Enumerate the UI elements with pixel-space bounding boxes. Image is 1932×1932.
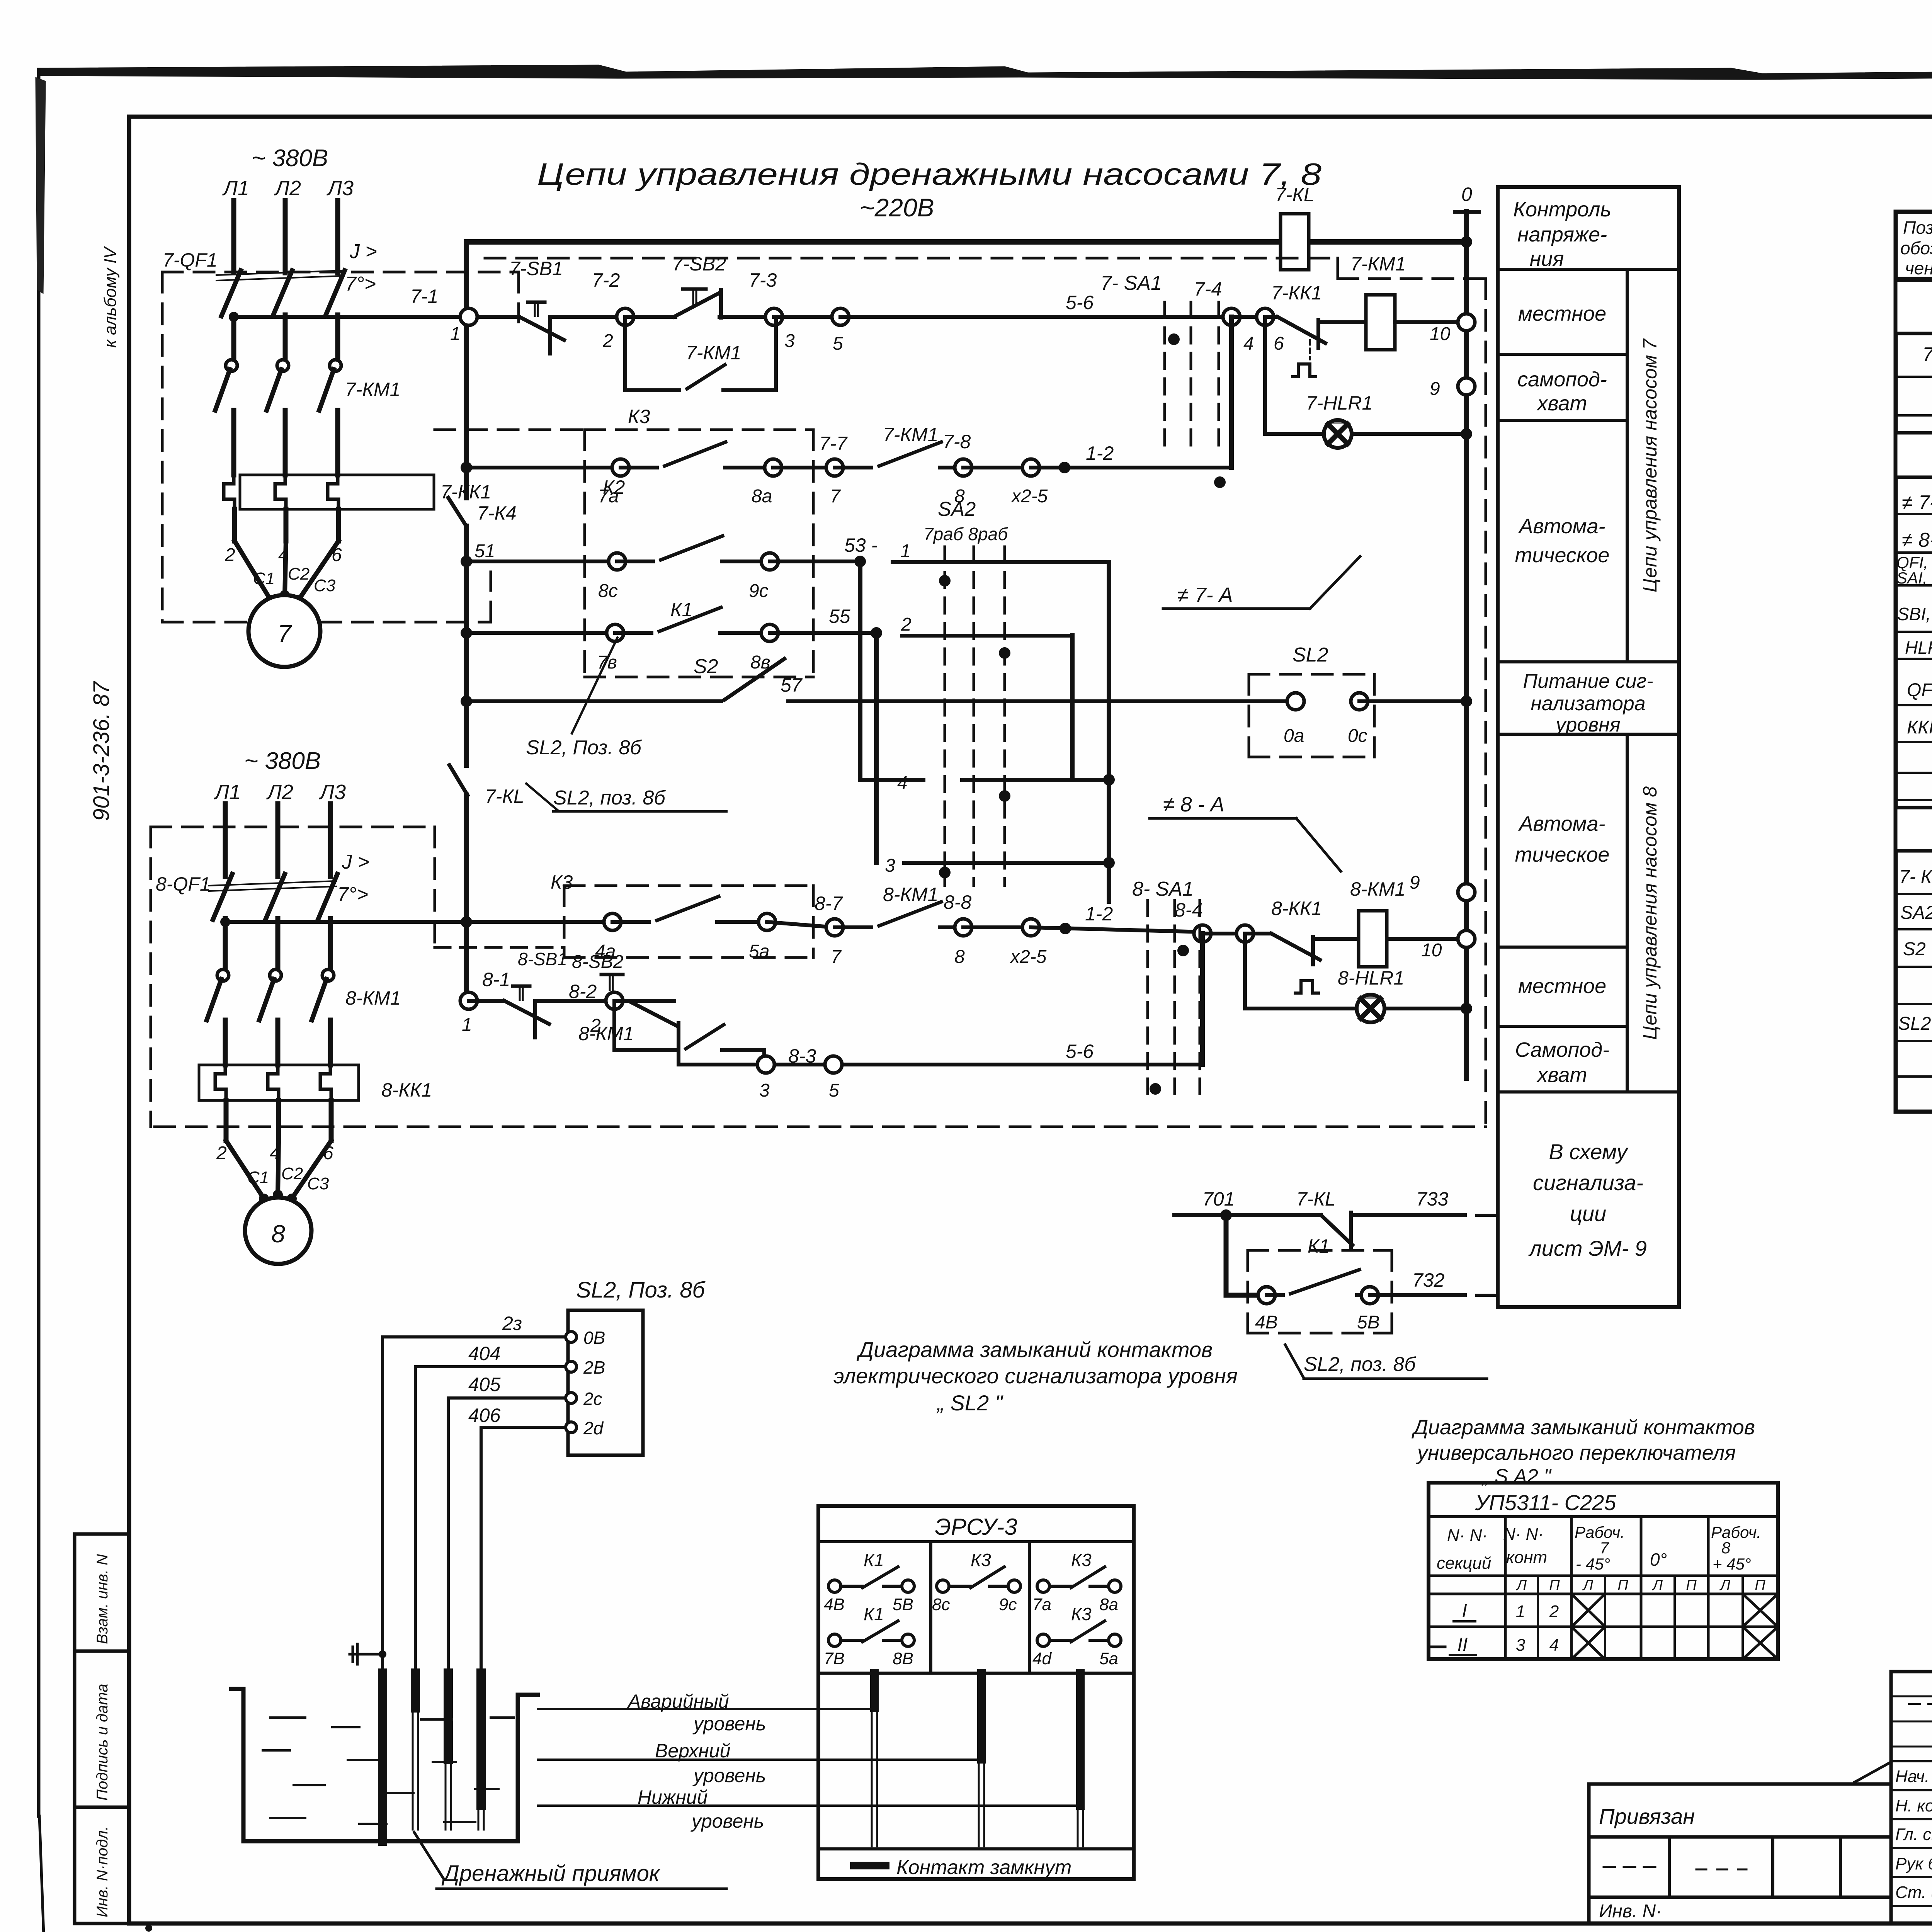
- svg-text:3: 3: [1516, 1636, 1526, 1655]
- svg-text:хват: хват: [1536, 392, 1587, 415]
- svg-text:901-3-236. 87: 901-3-236. 87: [89, 680, 114, 821]
- svg-text:С2: С2: [281, 1164, 303, 1183]
- svg-text:К1: К1: [1308, 1235, 1330, 1257]
- svg-text:НLR1: НLR1: [1905, 638, 1932, 658]
- svg-text:7°>: 7°>: [337, 883, 368, 906]
- svg-text:ККI: ККI: [1907, 717, 1932, 738]
- svg-text:2: 2: [1549, 1602, 1559, 1621]
- svg-text:Дренажный приямок: Дренажный приямок: [441, 1861, 661, 1886]
- svg-text:7-КL: 7-КL: [1275, 184, 1315, 206]
- svg-text:Питание сиг-: Питание сиг-: [1523, 670, 1653, 692]
- svg-text:хват: хват: [1536, 1063, 1587, 1087]
- svg-text:~ 380В: ~ 380В: [244, 748, 321, 774]
- svg-text:К3: К3: [971, 1550, 991, 1570]
- svg-text:5В: 5В: [893, 1595, 913, 1614]
- svg-text:7в: 7в: [597, 652, 617, 673]
- svg-text:7, 8: 7, 8: [1922, 344, 1932, 366]
- svg-text:Автома-: Автома-: [1518, 812, 1605, 835]
- svg-text:конт: конт: [1506, 1548, 1547, 1567]
- svg-text:9с: 9с: [999, 1595, 1017, 1614]
- svg-text:С1: С1: [247, 1168, 269, 1187]
- svg-text:7-НLR1: 7-НLR1: [1306, 392, 1372, 414]
- svg-text:К1: К1: [670, 599, 692, 621]
- svg-text:SL2: SL2: [1898, 1014, 1931, 1034]
- svg-text:7-КL: 7-КL: [1296, 1188, 1336, 1210]
- svg-text:„ SL2 ": „ SL2 ": [936, 1391, 1003, 1415]
- svg-text:SL2: SL2: [1293, 644, 1328, 666]
- svg-text:Подпись и дата: Подпись и дата: [94, 1684, 111, 1801]
- svg-text:7-КL: 7-КL: [485, 786, 524, 807]
- svg-text:Автома-: Автома-: [1518, 515, 1605, 538]
- svg-text:7-КМ1: 7-КМ1: [883, 424, 938, 446]
- svg-text:ния: ния: [1530, 247, 1564, 270]
- svg-text:тическое: тическое: [1515, 544, 1610, 567]
- svg-text:7-КМ1: 7-КМ1: [345, 379, 400, 400]
- svg-text:I: I: [1462, 1601, 1467, 1621]
- svg-text:SL2, поз. 8б: SL2, поз. 8б: [1304, 1353, 1416, 1376]
- svg-text:3: 3: [885, 855, 895, 876]
- svg-text:сигнализа-: сигнализа-: [1533, 1170, 1643, 1195]
- svg-text:лист ЭМ- 9: лист ЭМ- 9: [1528, 1236, 1647, 1260]
- svg-text:С1: С1: [253, 569, 275, 588]
- svg-text:С3: С3: [314, 576, 336, 595]
- svg-text:+ 45°: + 45°: [1713, 1555, 1751, 1573]
- svg-text:9с: 9с: [749, 581, 769, 601]
- svg-text:местное: местное: [1518, 975, 1606, 998]
- svg-text:4: 4: [1549, 1636, 1559, 1655]
- svg-text:местное: местное: [1518, 302, 1606, 325]
- svg-text:~220В: ~220В: [860, 193, 934, 222]
- svg-text:Л1: Л1: [222, 177, 249, 200]
- svg-text:7-4: 7-4: [1194, 278, 1222, 300]
- svg-text:8-QF1: 8-QF1: [156, 873, 211, 895]
- svg-text:П: П: [1686, 1577, 1697, 1594]
- svg-text:Цепи управления насосом 7: Цепи управления насосом 7: [1639, 338, 1661, 592]
- svg-text:10: 10: [1430, 324, 1451, 344]
- svg-text:8-2: 8-2: [569, 981, 597, 1002]
- svg-text:2В: 2В: [583, 1357, 605, 1378]
- svg-text:Диаграмма замыканий контакт: Диаграмма замыканий контактов: [1412, 1416, 1755, 1439]
- svg-text:1: 1: [1516, 1602, 1525, 1621]
- svg-text:2d: 2d: [583, 1418, 604, 1438]
- svg-text:7-КМ1: 7-КМ1: [1350, 253, 1406, 275]
- svg-text:напряже-: напряже-: [1517, 223, 1607, 246]
- svg-text:8- SА1: 8- SА1: [1132, 878, 1194, 900]
- svg-text:8с: 8с: [598, 581, 618, 601]
- svg-text:уровня: уровня: [1554, 714, 1620, 736]
- svg-text:7-3: 7-3: [749, 269, 777, 291]
- svg-text:4В: 4В: [824, 1595, 845, 1614]
- svg-text:Л3: Л3: [319, 781, 346, 804]
- svg-text:х2-5: х2-5: [1010, 947, 1047, 967]
- svg-text:Нач. отд: Нач. отд: [1895, 1767, 1932, 1786]
- svg-text:7-SВ2: 7-SВ2: [672, 253, 726, 275]
- svg-text:1-2: 1-2: [1085, 903, 1113, 925]
- svg-text:8: 8: [1721, 1539, 1731, 1557]
- svg-text:чение: чение: [1905, 258, 1932, 278]
- svg-text:8-3: 8-3: [788, 1045, 816, 1067]
- svg-text:Аварийный: Аварийный: [627, 1690, 729, 1712]
- svg-text:П: П: [1617, 1577, 1628, 1594]
- svg-text:Взам. инв. N: Взам. инв. N: [94, 1554, 111, 1644]
- svg-text:уровень: уровень: [690, 1810, 764, 1832]
- svg-text:уровень: уровень: [692, 1713, 766, 1735]
- svg-text:7- КL: 7- КL: [1899, 867, 1932, 887]
- svg-text:7-8: 7-8: [943, 431, 971, 452]
- svg-text:Н. контр.: Н. контр.: [1895, 1796, 1932, 1815]
- svg-text:1-2: 1-2: [1086, 442, 1114, 464]
- svg-text:2: 2: [602, 331, 613, 351]
- svg-text:1: 1: [462, 1015, 472, 1035]
- svg-text:Инв. N·: Инв. N·: [1599, 1901, 1662, 1922]
- svg-text:к альбому IV: к альбому IV: [101, 246, 120, 348]
- svg-text:8а: 8а: [752, 486, 772, 507]
- svg-text:К3: К3: [628, 406, 650, 427]
- svg-text:Л: Л: [1582, 1577, 1594, 1594]
- svg-text:4d: 4d: [1032, 1649, 1052, 1668]
- svg-text:ции: ции: [1570, 1201, 1606, 1226]
- svg-text:2: 2: [224, 545, 235, 565]
- svg-text:5а: 5а: [1099, 1649, 1118, 1668]
- svg-text:Л: Л: [1651, 1577, 1663, 1594]
- svg-text:733: 733: [1416, 1188, 1449, 1210]
- svg-text:S2: S2: [694, 655, 718, 678]
- svg-text:1: 1: [450, 324, 461, 344]
- svg-text:8: 8: [954, 947, 965, 967]
- svg-text:Контакт замкнут: Контакт замкнут: [896, 1856, 1071, 1879]
- svg-text:5: 5: [833, 333, 843, 354]
- svg-text:Самопод-: Самопод-: [1515, 1038, 1609, 1061]
- svg-text:N· N·: N· N·: [1503, 1525, 1544, 1544]
- svg-text:Цепи управления насосом 8: Цепи управления насосом 8: [1639, 786, 1661, 1040]
- svg-text:К1: К1: [864, 1604, 884, 1624]
- svg-text:Инв. N·подл.: Инв. N·подл.: [94, 1826, 111, 1917]
- svg-text:7раб 8раб: 7раб 8раб: [923, 524, 1009, 544]
- svg-text:7-SВ1: 7-SВ1: [509, 258, 563, 279]
- svg-text:0В: 0В: [583, 1328, 605, 1348]
- svg-text:Рук бр.: Рук бр.: [1895, 1854, 1932, 1873]
- svg-text:~ 380В: ~ 380В: [252, 145, 328, 172]
- svg-text:5: 5: [829, 1080, 839, 1101]
- svg-text:Гл. спец: Гл. спец: [1895, 1825, 1932, 1844]
- svg-text:8-КМ1: 8-КМ1: [578, 1023, 634, 1044]
- svg-text:8а: 8а: [1099, 1595, 1118, 1614]
- svg-text:8-КК1: 8-КК1: [1271, 898, 1322, 919]
- svg-text:SАI, ККI: SАI, ККI: [1896, 569, 1932, 587]
- svg-text:7-1: 7-1: [410, 286, 438, 307]
- svg-text:405: 405: [468, 1374, 501, 1395]
- svg-text:≠ 7- А: ≠ 7- А: [1902, 492, 1932, 514]
- svg-text:Л2: Л2: [266, 781, 293, 804]
- svg-text:Ст. инж: Ст. инж: [1895, 1883, 1932, 1902]
- svg-text:4: 4: [897, 773, 908, 793]
- svg-text:7: 7: [277, 620, 292, 648]
- svg-text:SL2, Поз. 8б: SL2, Поз. 8б: [576, 1277, 706, 1303]
- svg-text:406: 406: [468, 1405, 501, 1426]
- svg-text:SА2: SА2: [938, 498, 976, 520]
- svg-text:S2: S2: [1903, 939, 1926, 959]
- svg-text:П: П: [1549, 1577, 1560, 1594]
- svg-text:10: 10: [1421, 940, 1442, 961]
- svg-text:SА2: SА2: [1900, 903, 1932, 923]
- svg-text:8-8: 8-8: [944, 891, 971, 913]
- svg-text:8-4: 8-4: [1175, 899, 1202, 921]
- svg-text:2с: 2с: [583, 1389, 602, 1409]
- svg-text:7В: 7В: [824, 1649, 845, 1668]
- svg-text:53 -: 53 -: [844, 534, 878, 556]
- svg-text:4В: 4В: [1255, 1312, 1278, 1333]
- svg-text:51: 51: [474, 541, 495, 561]
- svg-text:0°: 0°: [1650, 1549, 1667, 1570]
- svg-text:732: 732: [1412, 1269, 1445, 1291]
- svg-text:Контроль: Контроль: [1513, 198, 1611, 221]
- svg-text:электрического сигнализатора: электрического сигнализатора уровня: [833, 1364, 1238, 1388]
- svg-text:Позиц.: Позиц.: [1903, 218, 1932, 238]
- svg-text:0с: 0с: [1348, 726, 1367, 746]
- svg-text:8: 8: [271, 1220, 285, 1248]
- svg-text:7-КК1: 7-КК1: [1271, 282, 1322, 304]
- svg-text:Нижний: Нижний: [638, 1786, 707, 1808]
- svg-text:нализатора: нализатора: [1531, 692, 1645, 715]
- svg-text:обозна-: обозна-: [1900, 238, 1932, 258]
- svg-text:7-7: 7-7: [819, 433, 848, 454]
- svg-text:Л1: Л1: [214, 781, 241, 804]
- svg-text:II: II: [1458, 1634, 1468, 1655]
- svg-text:Л3: Л3: [327, 177, 354, 200]
- svg-text:Привязан: Привязан: [1599, 1804, 1695, 1828]
- svg-text:Рабоч.: Рабоч.: [1711, 1523, 1761, 1541]
- svg-text:N· N·: N· N·: [1447, 1526, 1488, 1545]
- svg-text:К2: К2: [603, 476, 625, 498]
- svg-text:SL2, Поз. 8б: SL2, Поз. 8б: [526, 736, 642, 759]
- svg-text:SВI, SВ2: SВI, SВ2: [1897, 604, 1932, 624]
- svg-text:Л2: Л2: [274, 177, 301, 200]
- svg-text:≠ 8 - А: ≠ 8 - А: [1163, 793, 1225, 816]
- svg-text:К1: К1: [864, 1550, 884, 1570]
- svg-text:8-7: 8-7: [815, 893, 843, 914]
- svg-text:П: П: [1755, 1577, 1765, 1594]
- svg-text:К3: К3: [551, 871, 573, 893]
- svg-text:7-КМ1: 7-КМ1: [686, 342, 741, 364]
- svg-text:404: 404: [468, 1343, 500, 1364]
- svg-text:тическое: тическое: [1515, 843, 1610, 866]
- svg-text:7°>: 7°>: [345, 273, 376, 295]
- svg-text:7: 7: [1600, 1539, 1609, 1557]
- svg-text:8-КМ1: 8-КМ1: [883, 884, 938, 905]
- svg-text:7-QF1: 7-QF1: [163, 249, 218, 271]
- svg-text:Верхний: Верхний: [655, 1740, 730, 1762]
- svg-text:≠ 7- А: ≠ 7- А: [1177, 583, 1233, 607]
- svg-text:QFI: QFI: [1907, 680, 1932, 701]
- svg-text:2з: 2з: [502, 1313, 522, 1334]
- svg-text:8-КМ1: 8-КМ1: [345, 987, 401, 1009]
- svg-text:55: 55: [829, 605, 850, 627]
- svg-text:8с: 8с: [932, 1595, 950, 1614]
- svg-text:самопод-: самопод-: [1517, 368, 1607, 391]
- svg-text:SL2, поз. 8б: SL2, поз. 8б: [553, 787, 666, 809]
- svg-text:5-6: 5-6: [1066, 1041, 1094, 1062]
- svg-text:К3: К3: [1071, 1604, 1092, 1624]
- svg-text:8-SВ2: 8-SВ2: [572, 952, 623, 972]
- svg-text:универсального переключателя: универсального переключателя: [1416, 1441, 1736, 1464]
- svg-text:В схему: В схему: [1549, 1139, 1628, 1164]
- svg-text:4: 4: [1243, 333, 1254, 354]
- svg-text:0: 0: [1461, 184, 1472, 205]
- svg-text:ЭРСУ-3: ЭРСУ-3: [935, 1514, 1017, 1540]
- svg-text:секций: секций: [1437, 1554, 1491, 1573]
- svg-text:1: 1: [900, 541, 911, 561]
- svg-text:7-К4: 7-К4: [477, 502, 517, 524]
- svg-text:УП5311- С225: УП5311- С225: [1475, 1490, 1617, 1515]
- svg-text:8-КК1: 8-КК1: [381, 1079, 432, 1101]
- svg-text:8-КМ1: 8-КМ1: [1350, 878, 1405, 900]
- svg-text:8-1: 8-1: [482, 969, 510, 990]
- svg-text:- 45°: - 45°: [1576, 1555, 1610, 1573]
- svg-text:701: 701: [1202, 1188, 1235, 1210]
- svg-text:6: 6: [1274, 333, 1284, 354]
- svg-text:С2: С2: [288, 565, 310, 583]
- svg-text:К3: К3: [1071, 1550, 1092, 1570]
- svg-text:9: 9: [1430, 379, 1440, 399]
- svg-text:Л: Л: [1515, 1577, 1527, 1594]
- svg-text:8-SВ1: 8-SВ1: [518, 949, 567, 969]
- svg-text:J >: J >: [349, 240, 377, 263]
- svg-text:2: 2: [216, 1143, 227, 1163]
- svg-text:уровень: уровень: [692, 1765, 766, 1786]
- svg-text:С3: С3: [307, 1174, 329, 1193]
- svg-text:3: 3: [784, 331, 795, 351]
- svg-text:Диаграмма замыканий контактов: Диаграмма замыканий контактов: [856, 1337, 1213, 1362]
- svg-text:Цепи управления дренажными: Цепи управления дренажными насосами 7, 8: [537, 157, 1322, 191]
- svg-text:5-6: 5-6: [1066, 292, 1094, 313]
- svg-text:5В: 5В: [1357, 1312, 1380, 1333]
- svg-text:7- SА1: 7- SА1: [1100, 272, 1162, 294]
- svg-text:3: 3: [759, 1080, 770, 1101]
- svg-text:7а: 7а: [1032, 1595, 1051, 1614]
- svg-text:Л: Л: [1719, 1577, 1731, 1594]
- svg-text:х2-5: х2-5: [1011, 486, 1048, 507]
- svg-text:8В: 8В: [893, 1649, 913, 1668]
- svg-text:7: 7: [831, 947, 842, 967]
- svg-text:J >: J >: [342, 851, 369, 873]
- svg-text:2: 2: [901, 614, 912, 635]
- svg-text:0а: 0а: [1284, 726, 1304, 746]
- svg-text:7-2: 7-2: [592, 269, 620, 291]
- svg-text:8-НLR1: 8-НLR1: [1338, 967, 1404, 989]
- svg-text:7: 7: [830, 486, 841, 507]
- svg-text:9: 9: [1410, 872, 1420, 893]
- svg-text:≠ 8- А: ≠ 8- А: [1902, 529, 1932, 551]
